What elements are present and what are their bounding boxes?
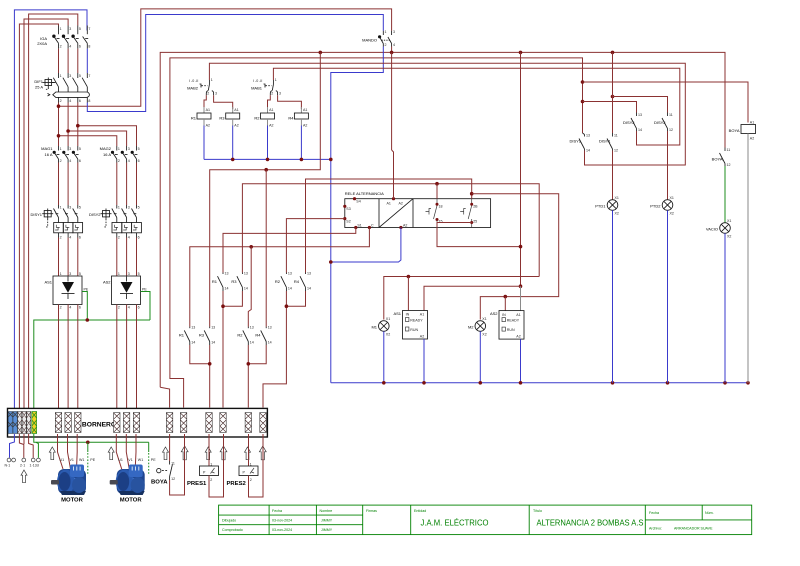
svg-text:JIMMY: JIMMY: [321, 528, 333, 532]
wire A1 riser x520: [520, 52, 522, 286]
svg-text:1: 1: [60, 147, 62, 151]
svg-text:3: 3: [69, 205, 71, 209]
wire disy1 12 to PTD1: [612, 151, 614, 200]
svg-text:4: 4: [69, 45, 71, 49]
svg-text:BOYA: BOYA: [729, 128, 740, 133]
wire L3 left riser: [29, 14, 78, 413]
terminal blocks motor2: [114, 413, 140, 433]
svg-text:AS2: AS2: [490, 311, 498, 316]
svg-text:Comprobado: Comprobado: [222, 528, 243, 532]
wire pres1 loop: [209, 434, 224, 497]
svg-text:2: 2: [118, 306, 120, 310]
svg-text:R1: R1: [179, 333, 185, 338]
svg-text:VACIO: VACIO: [706, 227, 718, 232]
soft starter AS2: [103, 272, 147, 310]
wire AS1 to terminals: [58, 305, 60, 413]
svg-text:RELE ALTERNANCIA: RELE ALTERNANCIA: [345, 191, 384, 196]
svg-text:2B: 2B: [473, 205, 478, 209]
contact BOYA 11-12: [712, 148, 731, 168]
svg-text:R4: R4: [288, 116, 294, 121]
coil R1: [191, 107, 211, 128]
svg-text:READY: READY: [410, 319, 423, 323]
wire AS1 PE green: [82, 292, 87, 321]
svg-text:14: 14: [307, 287, 311, 291]
svg-text:MAG1: MAG1: [41, 146, 53, 151]
svg-text:14: 14: [288, 287, 292, 291]
svg-text:4: 4: [128, 159, 130, 163]
node PE motor junction: [86, 441, 90, 445]
svg-text:2: 2: [118, 159, 120, 163]
svg-text:13: 13: [307, 272, 311, 276]
svg-text:14: 14: [250, 341, 254, 345]
svg-text:13: 13: [191, 326, 195, 330]
breaker MAG1 16A: [41, 146, 81, 163]
svg-text:13: 13: [211, 326, 215, 330]
svg-text:2: 2: [60, 159, 62, 163]
svg-text:S3: S3: [346, 207, 350, 211]
connector 2-1: [22, 458, 26, 462]
svg-text:5: 5: [138, 205, 140, 209]
wire C line: [190, 228, 370, 327]
svg-text:14: 14: [191, 341, 195, 345]
wire PE below bornero green: [34, 434, 149, 442]
svg-text:6: 6: [79, 235, 81, 239]
svg-text:12: 12: [727, 163, 731, 167]
node 18 tap: [435, 182, 439, 186]
svg-text:3: 3: [215, 92, 217, 96]
node rail x320: [319, 51, 323, 55]
arrows control terminals: [162, 447, 168, 460]
motor breaker DISY1: [30, 205, 82, 239]
svg-text:I -0 -II: I -0 -II: [189, 79, 198, 83]
contact R2 upper: [275, 272, 292, 292]
svg-text:25 A: 25 A: [35, 85, 43, 90]
svg-text:4: 4: [69, 306, 71, 310]
svg-text:V1: V1: [128, 458, 132, 462]
svg-text:MAB2: MAB2: [187, 86, 199, 91]
wire N below bornero: [10, 434, 15, 458]
wire L1 left riser: [19, 24, 58, 413]
svg-text:14: 14: [586, 149, 590, 153]
svg-text:12: 12: [669, 128, 673, 132]
svg-text:AS1: AS1: [393, 311, 401, 316]
wire 18 drop: [436, 184, 438, 199]
svg-text:R2: R2: [254, 116, 260, 121]
svg-text:R1: R1: [191, 116, 197, 121]
svg-text:AS1: AS1: [44, 280, 52, 285]
svg-text:A2: A2: [303, 124, 307, 128]
svg-text:11: 11: [614, 134, 618, 138]
svg-text:X1: X1: [727, 219, 731, 223]
box AS1 feedback: [393, 311, 427, 340]
svg-text:3: 3: [279, 92, 281, 96]
svg-text:6: 6: [79, 99, 81, 103]
wire R2R4 lower join: [248, 345, 266, 364]
wire R1R3 join to PRES1 terminal: [223, 291, 242, 306]
contact R1 lower: [179, 326, 195, 345]
svg-text:2: 2: [60, 235, 62, 239]
coil R4: [288, 107, 308, 128]
svg-text:2: 2: [210, 478, 212, 482]
svg-text:Fecha: Fecha: [649, 511, 659, 515]
wire L below bornero: [19, 434, 23, 458]
svg-text:12: 12: [614, 149, 618, 153]
wire motor1 feeds: [58, 434, 64, 469]
svg-text:2: 2: [271, 92, 273, 96]
switch MANDO: [362, 30, 395, 47]
wire pres2 loop: [249, 434, 264, 497]
svg-text:Archivo:: Archivo:: [649, 527, 662, 531]
node x520 A1 line: [519, 284, 523, 288]
motor breaker DISY2: [89, 205, 141, 239]
wire DIF1 outputs to MAG1: [58, 103, 60, 147]
wire disy2 13 feed: [583, 102, 637, 113]
svg-text:A1: A1: [269, 108, 273, 112]
svg-text:1: 1: [385, 30, 387, 34]
svg-text:11: 11: [171, 462, 175, 466]
svg-text:3: 3: [69, 147, 71, 151]
svg-text:R2: R2: [275, 279, 281, 284]
svg-text:A2: A2: [403, 224, 407, 228]
pressure switch PRES2: [227, 434, 259, 487]
title block text: [222, 509, 714, 532]
svg-text:13: 13: [288, 272, 292, 276]
svg-text:R1: R1: [212, 279, 218, 284]
wire AS A1 line: [424, 286, 521, 310]
svg-text:A2: A2: [206, 124, 210, 128]
svg-text:W1: W1: [138, 458, 143, 462]
soft starter AS1: [44, 272, 88, 310]
svg-text:14: 14: [268, 341, 272, 345]
wire RELE A1 feed: [391, 52, 393, 150]
wire R2R4 join to terminal: [286, 291, 305, 306]
svg-text:14: 14: [225, 287, 229, 291]
svg-text:3: 3: [128, 272, 130, 276]
wire motor2 feeds: [116, 434, 121, 469]
svg-text:U1: U1: [60, 458, 65, 462]
lamp M1: [371, 317, 390, 337]
svg-text:A1: A1: [234, 108, 238, 112]
wire AS1 IN drop: [407, 277, 409, 311]
svg-text:25: 25: [473, 219, 477, 223]
node AS1 IN tap: [407, 275, 411, 279]
svg-text:MAG2: MAG2: [100, 146, 112, 151]
terminal blocks left group: [8, 412, 36, 434]
svg-text:S2: S2: [346, 219, 350, 223]
wire DISY2 to AS2: [116, 238, 118, 277]
contact DISY1 11-12: [599, 133, 618, 153]
wire M2 feed: [472, 194, 559, 320]
wire disy2 12 to PTD2: [667, 131, 669, 200]
selector MAB1: [251, 78, 281, 96]
motor M1 graphic: [51, 465, 86, 496]
svg-text:A1: A1: [303, 108, 307, 112]
svg-text:V1: V1: [70, 458, 74, 462]
svg-text:X1: X1: [615, 196, 619, 200]
svg-text:1·13d: 1·13d: [30, 464, 39, 468]
wire MAB1.3 to R4: [278, 95, 302, 109]
wire PTD1 blue: [612, 210, 614, 382]
svg-text:8: 8: [88, 99, 90, 103]
svg-text:C: C: [371, 224, 374, 228]
svg-text:Nombre: Nombre: [320, 509, 333, 513]
svg-text:I -0 -II: I -0 -II: [253, 79, 262, 83]
wire AS1 A2 blue: [423, 339, 425, 383]
svg-text:X2: X2: [615, 212, 619, 216]
svg-text:13: 13: [225, 272, 229, 276]
svg-text:BOYA: BOYA: [151, 480, 168, 486]
svg-text:A2: A2: [399, 202, 403, 206]
wire taps to MAG2: [59, 136, 117, 146]
svg-text:J.A.M. ELÉCTRICO: J.A.M. ELÉCTRICO: [421, 518, 489, 528]
breaker MAG2 16A: [100, 146, 140, 163]
contact R4 lower: [255, 326, 271, 345]
svg-text:2: 2: [207, 92, 209, 96]
svg-text:1: 1: [60, 27, 62, 31]
svg-text:R2: R2: [237, 333, 243, 338]
pressure switch PRES1: [187, 434, 219, 487]
wire L2 left riser: [24, 19, 68, 413]
svg-text:BOYA: BOYA: [712, 157, 723, 162]
contact R3 lower: [199, 326, 215, 345]
svg-text:M1: M1: [371, 325, 377, 330]
connector 1-13d: [31, 458, 35, 462]
svg-text:3: 3: [128, 205, 130, 209]
svg-text:03-nov-2024: 03-nov-2024: [272, 519, 292, 523]
arrow motor1: [49, 447, 55, 460]
node L1 tap: [57, 104, 61, 108]
svg-text:12: 12: [171, 477, 175, 481]
wire disy2 11 feed: [613, 97, 668, 113]
svg-text:X2: X2: [670, 212, 674, 216]
svg-text:A1: A1: [206, 108, 210, 112]
svg-text:3: 3: [393, 30, 395, 34]
coil R2: [254, 107, 274, 128]
terminal blocks motor1: [55, 413, 81, 433]
svg-text:A2: A2: [234, 124, 238, 128]
svg-text:S4: S4: [356, 200, 360, 204]
wire IGA to DIF1: [58, 49, 60, 73]
contact DISY2 13-14: [623, 113, 642, 133]
wire MAB2.2 to R1: [204, 95, 206, 109]
svg-text:X2: X2: [482, 333, 486, 337]
svg-text:4: 4: [69, 159, 71, 163]
terminal blocks control: [166, 413, 266, 433]
svg-text:5: 5: [79, 272, 81, 276]
svg-text:W1: W1: [79, 458, 84, 462]
svg-text:Título: Título: [533, 509, 542, 513]
wire C branch to R2sec: [248, 247, 251, 327]
wire MAG1 to DISY1: [58, 163, 60, 206]
svg-text:R4: R4: [255, 333, 261, 338]
wire RELE A2 blue: [331, 228, 401, 263]
svg-text:2: 2: [60, 45, 62, 49]
node rail MANDO: [390, 51, 394, 55]
svg-text:DIF1: DIF1: [34, 79, 43, 84]
wire VACIO blue: [724, 233, 726, 382]
svg-text:6: 6: [79, 159, 81, 163]
svg-text:A1: A1: [516, 313, 520, 317]
wire BOYA 12 green: [724, 166, 726, 223]
wire S1 line: [223, 228, 356, 273]
wire boya coil feed: [583, 82, 749, 123]
svg-text:RUN: RUN: [410, 328, 418, 332]
svg-text:A2: A2: [420, 335, 424, 339]
svg-text:6: 6: [138, 159, 140, 163]
svg-text:1: 1: [60, 272, 62, 276]
wire L1 tap to top rail: [59, 9, 392, 106]
svg-text:2·1: 2·1: [20, 464, 25, 468]
node AS2 IN tap: [504, 295, 508, 299]
connector N-1: [7, 458, 11, 462]
svg-text:DISY2: DISY2: [89, 212, 101, 217]
svg-text:U1: U1: [118, 458, 123, 462]
svg-text:16 A: 16 A: [44, 152, 52, 157]
svg-text:PTD2: PTD2: [650, 204, 661, 209]
node bus junctions: [382, 381, 386, 385]
wire rail169 branch R4sec: [265, 170, 267, 327]
svg-text:X1: X1: [670, 196, 674, 200]
svg-text:R4: R4: [294, 279, 300, 284]
svg-text:ALTERNANCIA 2 BOMBAS A.S: ALTERNANCIA 2 BOMBAS A.S: [537, 519, 644, 528]
svg-text:13: 13: [268, 326, 272, 330]
svg-text:18: 18: [439, 205, 443, 209]
svg-text:14: 14: [211, 341, 215, 345]
breaker IGA: [37, 26, 90, 49]
wire bottom neutral bus: [331, 382, 748, 384]
svg-text:PE: PE: [142, 288, 147, 292]
relay box RELE ALTERNANCIA: [343, 191, 490, 229]
coil R3: [219, 107, 239, 128]
svg-text:14: 14: [244, 287, 248, 291]
svg-text:MOTOR: MOTOR: [120, 498, 143, 504]
svg-text:5: 5: [79, 27, 81, 31]
svg-text:X2: X2: [727, 235, 731, 239]
svg-text:6: 6: [79, 306, 81, 310]
svg-text:AS2: AS2: [103, 280, 111, 285]
svg-text:3: 3: [69, 27, 71, 31]
svg-text:4: 4: [69, 235, 71, 239]
wire L3 below bornero: [29, 434, 34, 458]
svg-text:ARRANCADOR SUAVE: ARRANCADOR SUAVE: [674, 527, 713, 531]
wire boya return rail: [170, 58, 583, 408]
svg-text:4: 4: [128, 235, 130, 239]
svg-text:IN: IN: [406, 313, 410, 317]
svg-text:A2: A2: [269, 124, 273, 128]
wire contact feed rail 169.7: [210, 52, 321, 326]
svg-text:A1: A1: [420, 313, 424, 317]
lamp VACIO: [706, 219, 732, 239]
svg-text:3: 3: [69, 272, 71, 276]
wire 2B line: [306, 179, 472, 273]
node coil bus: [231, 158, 235, 162]
svg-text:A2: A2: [750, 137, 754, 141]
wire PTD2 blue: [667, 210, 669, 382]
svg-text:13: 13: [244, 272, 248, 276]
svg-text:5: 5: [79, 205, 81, 209]
svg-text:1: 1: [211, 78, 213, 82]
svg-text:2X0A: 2X0A: [37, 41, 47, 46]
wire MANDO pole2 to rail: [391, 47, 393, 53]
svg-text:READY: READY: [507, 319, 520, 323]
svg-text:R3: R3: [231, 279, 237, 284]
svg-text:5: 5: [138, 147, 140, 151]
contact R4 upper: [294, 272, 311, 292]
svg-text:PTD1: PTD1: [595, 204, 606, 209]
contact R3 upper: [231, 272, 248, 292]
svg-text:1: 1: [275, 78, 277, 82]
svg-text:Dibujado: Dibujado: [222, 519, 236, 523]
svg-text:N·1: N·1: [5, 464, 11, 468]
contact R2 lower: [237, 326, 253, 345]
svg-text:MANDO: MANDO: [362, 38, 377, 43]
svg-text:11: 11: [727, 148, 731, 152]
node MAG2 taps: [57, 134, 61, 138]
wire PE motor1 dotted: [87, 442, 89, 452]
svg-text:2: 2: [60, 306, 62, 310]
svg-text:3: 3: [69, 74, 71, 78]
svg-text:PE: PE: [151, 458, 156, 462]
wire coil A2 blue bus: [203, 126, 205, 160]
float switch BOYA: [151, 434, 175, 486]
relay coil BOYA: [729, 121, 756, 141]
contact DISY2 11-12: [654, 113, 673, 133]
svg-text:13: 13: [250, 326, 254, 330]
svg-text:2: 2: [60, 99, 62, 103]
svg-text:A2: A2: [516, 335, 520, 339]
svg-text:Firmas: Firmas: [366, 509, 377, 513]
svg-text:6: 6: [138, 235, 140, 239]
svg-text:DISY1: DISY1: [30, 212, 42, 217]
svg-text:JIMMY: JIMMY: [321, 519, 333, 523]
node C branch: [249, 245, 253, 249]
svg-text:11: 11: [669, 113, 673, 117]
motor M2 graphic: [110, 465, 145, 496]
svg-text:2: 2: [385, 43, 387, 47]
svg-text:13: 13: [586, 134, 590, 138]
svg-text:03-nov-2024: 03-nov-2024: [272, 528, 292, 532]
wire MANDO blue to A2 bus: [331, 47, 384, 383]
svg-text:14: 14: [638, 128, 642, 132]
svg-text:PRES1: PRES1: [187, 481, 207, 487]
wire PE motor2 dotted: [148, 442, 150, 452]
svg-text:S1: S1: [357, 224, 361, 228]
node rail169: [264, 168, 268, 172]
node 2B branch: [470, 192, 474, 196]
wire M2 blue: [479, 331, 481, 383]
svg-text:PE: PE: [90, 458, 95, 462]
wire MAB2.3 to R3: [214, 95, 233, 109]
wire boya loop: [170, 434, 185, 495]
contact R1 upper: [212, 272, 229, 292]
wire control rail L: [160, 52, 725, 387]
box AS2 feedback: [490, 311, 524, 340]
wire disy1 11 riser: [612, 52, 614, 133]
wire M1 blue: [383, 331, 385, 383]
node x520 15-25: [519, 245, 523, 249]
wire S2 line: [286, 219, 344, 273]
wire M1 feed: [384, 277, 539, 320]
arrow motor2: [108, 447, 114, 460]
svg-text:Fecha: Fecha: [272, 509, 282, 513]
svg-text:PRES2: PRES2: [227, 481, 247, 487]
wire AS2 to terminals: [116, 305, 118, 413]
svg-text:6: 6: [79, 45, 81, 49]
svg-text:4: 4: [128, 306, 130, 310]
svg-text:Entidad: Entidad: [414, 509, 426, 513]
wire N to MANDO pole1: [87, 15, 383, 112]
svg-text:1: 1: [118, 272, 120, 276]
